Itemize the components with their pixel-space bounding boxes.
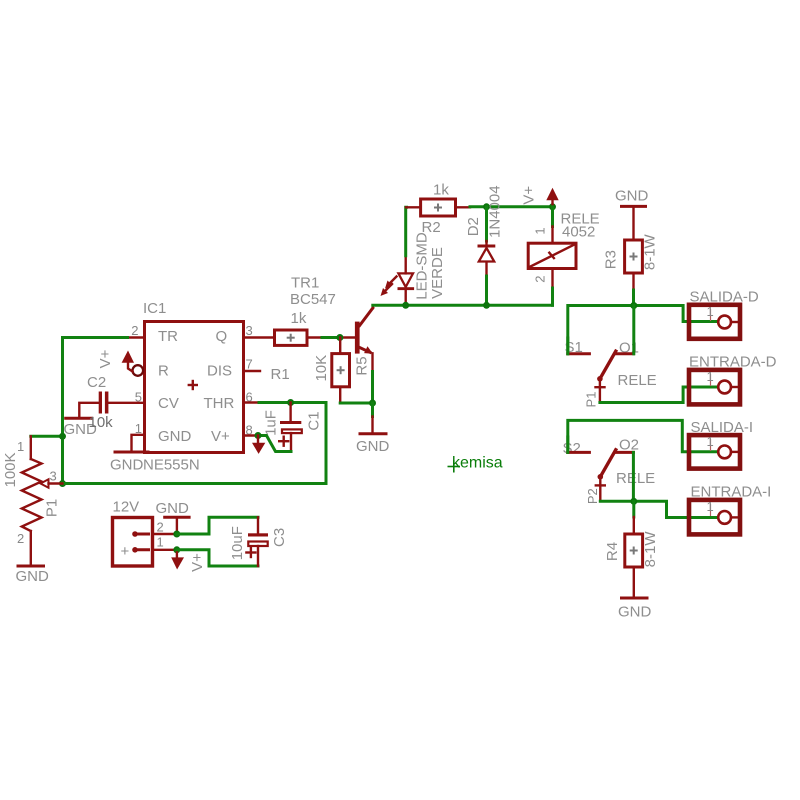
svg-text:R: R [158, 363, 169, 380]
IC IC1 NE555N body [143, 300, 244, 474]
svg-text:kemisa: kemisa [452, 455, 503, 472]
svg-text:P2: P2 [585, 488, 600, 504]
svg-text:RELE: RELE [616, 470, 655, 487]
wire net GND to C3 top [177, 517, 258, 534]
ground at 12V pin 2 [156, 500, 190, 534]
svg-text:GND: GND [16, 568, 50, 585]
capacitor C2 [79, 374, 144, 418]
svg-text:1: 1 [17, 439, 24, 454]
wire net S2 row [568, 420, 718, 452]
wire net V+ zigzag pin8 to C1 [258, 436, 291, 452]
junction TR net [59, 433, 66, 440]
svg-text:V+: V+ [521, 186, 538, 205]
wire net S1 pole to ENTRADA-D [600, 387, 718, 403]
connector ENTRADA-D [689, 354, 777, 405]
potentiometer P1 [2, 436, 63, 566]
capacitor C1 [263, 403, 323, 452]
svg-text:10K: 10K [313, 355, 330, 382]
svg-text:LED-SMD: LED-SMD [413, 232, 430, 300]
svg-text:3: 3 [246, 323, 253, 338]
junction wiper net [59, 480, 66, 487]
connector SALIDA-D [689, 289, 759, 339]
svg-text:3: 3 [50, 469, 57, 484]
svg-text:GND: GND [356, 438, 390, 455]
resistor R2 [406, 182, 470, 237]
svg-text:10uF: 10uF [229, 526, 246, 560]
svg-text:10k: 10k [89, 414, 114, 431]
svg-text:P1: P1 [44, 499, 61, 517]
switch S2 [563, 437, 656, 505]
svg-text:8-1W: 8-1W [642, 233, 659, 270]
svg-text:V+: V+ [211, 428, 230, 445]
svg-text:1: 1 [707, 304, 714, 319]
IC IC1 pin 1 stub and ground [110, 435, 148, 474]
resistor R1 [271, 310, 308, 383]
supply V+ arrow at 12V pin 1 [171, 550, 206, 572]
svg-text:C2: C2 [87, 374, 106, 391]
wire net THR loop [63, 403, 327, 484]
diode D2 1N4004 [465, 185, 503, 304]
IC IC1 pin 2 stub [128, 336, 145, 338]
LED emission arrows [381, 277, 397, 297]
svg-text:R5: R5 [354, 356, 371, 375]
wire LED to R2 [404, 207, 408, 256]
resistor R4 [604, 531, 659, 568]
junction D2 bottom [483, 302, 490, 309]
svg-text:1: 1 [157, 535, 164, 550]
junction R3 net [630, 302, 637, 309]
text kemisa [448, 455, 503, 473]
svg-text:S2: S2 [563, 440, 581, 457]
ground under R4 [618, 567, 652, 621]
wire R3 bottom [632, 273, 634, 306]
svg-text:12V: 12V [113, 499, 140, 516]
switch S1 [565, 306, 657, 408]
wire net pin6 to C1 [287, 399, 294, 406]
svg-text:Q: Q [216, 328, 228, 345]
svg-text:P1: P1 [583, 392, 598, 408]
svg-text:R4: R4 [604, 542, 621, 561]
svg-text:2: 2 [17, 531, 24, 546]
svg-text:NE555N: NE555N [143, 457, 200, 474]
wire R4 top [632, 501, 635, 534]
IC IC1 pin labels [158, 328, 234, 445]
svg-text:V+: V+ [97, 349, 114, 368]
junction emitter net [369, 400, 376, 407]
LED LED-SMD VERDE [398, 232, 446, 303]
wire net TR-pot [31, 338, 128, 484]
ground above R3 [615, 188, 649, 241]
svg-text:C3: C3 [271, 528, 288, 547]
svg-text:1k: 1k [291, 310, 307, 327]
svg-text:+: + [121, 543, 130, 560]
wire R5 bottom to emitter net [340, 387, 372, 403]
wire net V+ to C3 bottom [177, 550, 258, 566]
svg-text:1: 1 [707, 499, 714, 514]
junction 12V pin2 [173, 531, 180, 538]
wire net V+ top [470, 205, 553, 208]
svg-text:GND: GND [618, 604, 652, 621]
wire collector net [373, 304, 553, 307]
IC IC1 pin 8 stub [244, 434, 258, 436]
ground under C2 [64, 418, 98, 438]
junction base net [336, 334, 343, 341]
wire net S1 row [568, 306, 718, 354]
svg-text:TR: TR [158, 328, 178, 345]
svg-text:R3: R3 [603, 250, 620, 269]
svg-text:GND: GND [158, 428, 192, 445]
svg-text:1: 1 [533, 227, 548, 234]
svg-text:R2: R2 [422, 219, 441, 236]
wire net Q to base [307, 336, 355, 338]
svg-text:BC547: BC547 [290, 291, 336, 308]
junction pin8 [255, 432, 262, 439]
transistor TR1 BC547 [290, 275, 373, 372]
wire net S2 pole to ENTRADA-I [600, 501, 718, 517]
svg-text:2: 2 [157, 520, 164, 535]
svg-text:TR1: TR1 [291, 275, 319, 292]
supply V+ arrow at pin 8 [252, 436, 265, 454]
relay RELE 4052 coil [528, 207, 599, 305]
supply connector 12V [113, 499, 174, 567]
resistor R3 [603, 233, 659, 273]
svg-text:4052: 4052 [562, 224, 595, 241]
svg-text:7: 7 [246, 357, 253, 372]
wire junction down [371, 403, 374, 417]
svg-text:100K: 100K [2, 452, 19, 487]
resistor R5 [313, 354, 371, 387]
IC IC1 pin numbers [131, 323, 252, 438]
IC IC1 pin 4 inversion bubble [133, 365, 144, 376]
svg-text:1: 1 [707, 369, 714, 384]
svg-text:8-1W: 8-1W [642, 531, 659, 568]
svg-text:R1: R1 [271, 366, 290, 383]
junction relay V+ [549, 203, 556, 210]
junction LED net [402, 302, 409, 309]
svg-text:D2: D2 [465, 217, 482, 236]
svg-text:2: 2 [131, 323, 138, 338]
svg-text:VERDE: VERDE [429, 247, 446, 299]
wire O2 contact down [632, 452, 635, 501]
svg-text:THR: THR [204, 395, 235, 412]
svg-text:CV: CV [158, 395, 179, 412]
svg-text:1N4004: 1N4004 [486, 185, 503, 238]
svg-text:1: 1 [707, 434, 714, 449]
junction R4 net [630, 498, 637, 505]
IC IC1 pin 6 stub [244, 401, 259, 403]
svg-text:1uF: 1uF [263, 410, 280, 436]
svg-text:2: 2 [533, 276, 548, 283]
svg-text:V+: V+ [189, 553, 206, 572]
svg-text:1k: 1k [433, 182, 449, 199]
supply V+ arrow at pin 4 [97, 349, 134, 371]
junction 12V pin1 [173, 546, 180, 553]
svg-text:DIS: DIS [207, 363, 232, 380]
IC IC1 pin 3 stub [244, 336, 275, 338]
svg-text:C1: C1 [306, 411, 323, 430]
ground under transistor [356, 417, 390, 456]
capacitor C3 [229, 517, 288, 566]
IC IC1 pin 7 stub [244, 370, 260, 372]
svg-text:GND: GND [615, 188, 649, 205]
svg-text:IC1: IC1 [143, 300, 166, 317]
svg-text:GND: GND [110, 457, 144, 474]
junction D2 top [483, 203, 490, 210]
svg-text:GND: GND [156, 500, 190, 517]
supply V+ arrow top [521, 186, 559, 207]
ground under P1 [16, 566, 50, 585]
wire junction to R5 [339, 338, 341, 354]
connector ENTRADA-I [689, 484, 771, 535]
svg-text:RELE: RELE [618, 372, 657, 389]
wire emitter to ground [371, 372, 374, 404]
connector SALIDA-I [689, 419, 753, 469]
